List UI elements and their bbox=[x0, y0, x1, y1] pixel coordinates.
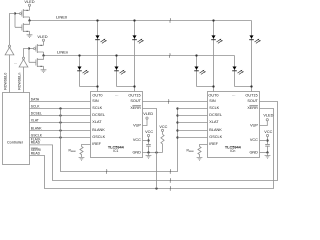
wire LINEn bbox=[44, 55, 235, 57]
wire XERR/READ common XERR net (line B) bbox=[30, 109, 274, 189]
svg-text:IREF: IREF bbox=[71, 151, 77, 153]
svg-text:XLAT: XLAT bbox=[31, 119, 39, 123]
svg-text:LINEn: LINEn bbox=[57, 50, 68, 55]
wire BLANK bbox=[30, 130, 91, 132]
svg-text:VCC: VCC bbox=[133, 138, 141, 142]
LED D5 (LINE0, ICn OUT0) bbox=[211, 35, 223, 43]
svg-text:OUT0: OUT0 bbox=[92, 93, 102, 97]
svg-text:VLED: VLED bbox=[37, 34, 47, 39]
wire DCSEL bbox=[30, 115, 91, 117]
svg-text:XERR: XERR bbox=[130, 106, 141, 110]
transistor NMOS low-side bbox=[15, 21, 30, 35]
svg-text:GSCLK: GSCLK bbox=[209, 135, 222, 139]
inverter U2 bbox=[22, 57, 24, 59]
svg-text:XERR: XERR bbox=[247, 106, 258, 110]
svg-text:SCLK: SCLK bbox=[31, 105, 40, 109]
svg-text:VLED: VLED bbox=[24, 0, 34, 4]
wire XLAT bbox=[30, 122, 91, 124]
svg-text:READ: READ bbox=[31, 152, 41, 156]
Controller box bbox=[3, 93, 30, 165]
svg-text:VLED: VLED bbox=[263, 114, 273, 118]
bus junction dots at ICn fan-out bbox=[176, 107, 178, 109]
node gate junction bbox=[14, 12, 16, 14]
wire LINE0 bbox=[30, 20, 252, 22]
node output junction bbox=[42, 54, 44, 56]
svg-text:SOUT: SOUT bbox=[247, 99, 258, 103]
svg-text:GSCLK: GSCLK bbox=[92, 135, 105, 139]
wire FLAG/READ to ICn SOUT (line A) bbox=[30, 102, 278, 181]
svg-text:DCSEL: DCSEL bbox=[31, 112, 42, 116]
svg-text:...: ... bbox=[115, 93, 118, 97]
svg-text:Controller: Controller bbox=[7, 140, 24, 144]
ground (ICn GND) bbox=[265, 153, 271, 159]
svg-text:OUT15: OUT15 bbox=[245, 93, 257, 97]
svg-text:BLANK: BLANK bbox=[31, 127, 43, 131]
bus junction dots at IC1 taps bbox=[59, 107, 61, 109]
node gate junction bbox=[28, 47, 30, 49]
ICn box TLC5944 bbox=[208, 92, 260, 158]
node IC1 XERR joins line B bbox=[155, 187, 157, 189]
svg-text:...: ... bbox=[14, 61, 17, 65]
LED D2 (LINEn, OUT0) bbox=[77, 67, 89, 75]
LED D6 (LINEn, ICn OUT0) bbox=[194, 67, 206, 75]
svg-text:OUT0: OUT0 bbox=[208, 93, 218, 97]
svg-text:OUT15: OUT15 bbox=[128, 93, 140, 97]
wire IC1 XERR drop to line B bbox=[143, 109, 157, 189]
wire DATA bbox=[30, 101, 91, 103]
svg-text:VLED: VLED bbox=[143, 112, 153, 116]
svg-text:BLANK: BLANK bbox=[209, 128, 222, 132]
svg-text:VCC: VCC bbox=[264, 130, 272, 134]
LED column pair ICn OUT0 bbox=[197, 21, 214, 92]
break mark on daisy chain wire bbox=[167, 99, 170, 104]
svg-text:SIN: SIN bbox=[92, 99, 99, 103]
ground bbox=[41, 70, 47, 73]
wire IC1 GND net bbox=[143, 152, 163, 154]
LED column pair IC1 OUT0 bbox=[80, 21, 98, 92]
LED D4 (LINEn, OUT15) bbox=[114, 67, 126, 75]
svg-text:IC1: IC1 bbox=[113, 149, 118, 153]
capacitor C1 (IC1 VCC decoupling) bbox=[146, 144, 151, 146]
capacitor C2 (ICn VCC decoupling) bbox=[265, 144, 270, 146]
break mark on bus (left) bbox=[105, 169, 108, 174]
svg-text:XLAT: XLAT bbox=[209, 120, 219, 124]
LED D8 (LINEn, ICn OUT15) bbox=[232, 67, 244, 75]
LED column pair IC1 OUT15 bbox=[117, 21, 135, 92]
inverter U1 output wire bbox=[10, 14, 16, 46]
wires ICn control fan-out bbox=[178, 108, 208, 110]
svg-text:SOUT: SOUT bbox=[130, 99, 141, 103]
wire ICn GND net bbox=[260, 152, 268, 154]
ground bbox=[27, 35, 33, 38]
wire SOUT IC1 to SIN ICn daisy chain bbox=[143, 101, 208, 103]
ground (IC1 GND) bbox=[146, 153, 152, 159]
svg-text:VUP: VUP bbox=[133, 124, 141, 128]
LED D7 (LINE0, ICn OUT15) bbox=[249, 35, 261, 43]
svg-text:IREF: IREF bbox=[209, 142, 218, 146]
svg-text:ICn: ICn bbox=[230, 149, 235, 153]
inverter U2 output wire bbox=[24, 49, 30, 58]
svg-text:DCSEL: DCSEL bbox=[92, 113, 105, 117]
svg-text:VUP: VUP bbox=[250, 124, 258, 128]
break mark on LINE0 bbox=[169, 18, 172, 23]
svg-text:IREF: IREF bbox=[92, 142, 101, 146]
IC1 box TLC5944 bbox=[91, 92, 143, 158]
wire SCLK bbox=[30, 108, 91, 110]
svg-text:SCLK: SCLK bbox=[209, 106, 219, 110]
transistor PMOS high-side bbox=[22, 9, 30, 21]
svg-text:VCC: VCC bbox=[159, 125, 167, 129]
svg-text:BLANK: BLANK bbox=[92, 128, 105, 132]
svg-text:READ: READ bbox=[31, 141, 41, 145]
svg-text:SIN: SIN bbox=[209, 99, 216, 103]
svg-text:GND: GND bbox=[132, 150, 141, 154]
svg-text:VCC: VCC bbox=[145, 130, 153, 134]
wire 5-signal bus to ICn bbox=[61, 109, 178, 172]
svg-text:...: ... bbox=[232, 93, 235, 97]
break mark on line B bbox=[169, 186, 172, 191]
break mark on line A bbox=[169, 178, 172, 183]
svg-text:LINE0: LINE0 bbox=[56, 15, 68, 20]
break mark on bus (right) bbox=[169, 169, 172, 174]
wire GSCLK bbox=[30, 137, 91, 139]
LED column pair ICn OUT15 bbox=[235, 21, 252, 92]
svg-text:SCLK: SCLK bbox=[92, 106, 102, 110]
resistor R_IREF (ICn) bbox=[200, 145, 208, 147]
transistor NMOS low-side bbox=[29, 56, 44, 70]
svg-text:ROWSEL0: ROWSEL0 bbox=[4, 73, 8, 90]
inverter U1 bbox=[8, 45, 10, 47]
svg-text:DCSEL: DCSEL bbox=[209, 113, 222, 117]
node output junction bbox=[28, 19, 30, 21]
LED D3 (LINE0, OUT15) bbox=[132, 35, 144, 43]
svg-text:GND: GND bbox=[249, 150, 258, 154]
break mark on LINEn bbox=[168, 53, 171, 58]
transistor PMOS high-side bbox=[36, 44, 44, 56]
resistor R_IREF (IC1) bbox=[82, 145, 91, 147]
svg-text:XLAT: XLAT bbox=[92, 120, 102, 124]
svg-text:IREF: IREF bbox=[189, 151, 195, 153]
svg-text:DATA: DATA bbox=[31, 98, 40, 102]
resistor R pull-up bbox=[161, 134, 164, 152]
LED D1 (LINE0, OUT0) bbox=[95, 35, 107, 43]
svg-text:VCC: VCC bbox=[250, 138, 258, 142]
svg-text:ROWSELn: ROWSELn bbox=[18, 73, 22, 90]
